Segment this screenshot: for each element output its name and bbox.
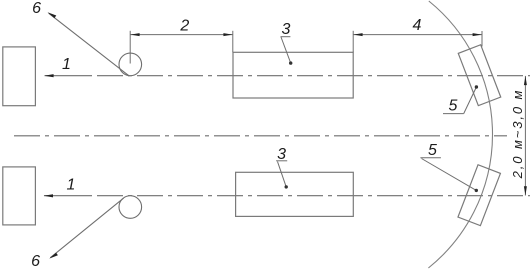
svg-text:1: 1 [62,56,71,73]
node: arrow 1 top [44,74,53,77]
component: lens circle bottom [119,196,142,219]
leader 5 top: underline [443,113,464,115]
leader 5 bottom: underline [420,157,441,159]
dimension 2: line [130,34,233,36]
leader 3 top: line [281,37,291,63]
component: arc (target surface) [428,1,492,268]
node: arrow 1 bottom [44,194,53,197]
svg-text:5: 5 [428,142,437,159]
component: module box 3 top [233,52,353,98]
component: module box 3 bottom [236,172,354,216]
svg-text:5: 5 [449,98,458,115]
wire: bottom beam axis (solid part after arrow) [44,195,92,197]
leader 6 top: line [49,13,129,76]
dimension vertical: arrowhead up [524,76,527,85]
dimension 2: extension line left (to circle centre) [129,31,131,64]
wire: top beam axis (solid part after arrow) [45,75,92,77]
component: tilted reflector 5 bottom [458,165,500,226]
leader 6 bottom: line [50,198,123,258]
dimension 4: line [353,34,482,36]
dimension vertical: line [524,76,526,196]
component: receiver box top-left [3,47,36,106]
svg-text:1: 1 [67,176,76,193]
leader 5 top: line [464,87,477,114]
svg-text:2,0 м~3,0 м: 2,0 м~3,0 м [510,89,525,180]
wire: bottom beam axis dash-dot [97,195,530,197]
node: dot 5 top [475,85,478,88]
leader 6 bottom: arrowhead [49,253,58,259]
leader 5 bottom: line [422,159,477,191]
dimension 2: arrowhead left [130,33,139,36]
wire: top beam axis dash-dot [97,75,530,77]
node: dot 5 bottom [475,189,478,192]
component: lens circle top [119,53,142,76]
dimension 4: arrowhead right [473,33,482,36]
leader 6 top: arrowhead [48,12,57,18]
svg-text:6: 6 [31,253,40,270]
dimension 2: arrowhead right [223,33,232,36]
dimension vertical: arrowhead down [524,186,527,195]
svg-text:3: 3 [282,21,291,38]
leader 3 bottom: line [278,162,287,187]
dimension 4: extension line left (box edge up) [352,31,354,53]
svg-text:4: 4 [413,17,422,34]
component: tilted reflector 5 top [458,45,500,106]
dimension 4: extension line right (to reflector corner) [481,31,483,47]
svg-text:2: 2 [179,18,189,35]
leader 3 bottom: underline [276,160,287,162]
dimension 2: extension line right (box edge up) [232,31,234,53]
dimension 4: arrowhead left [353,33,362,36]
component: receiver box bottom-left [3,167,36,225]
wire: middle horizontal dash-dot axis [14,135,507,137]
svg-text:6: 6 [32,0,41,17]
node: dot 3 bottom [285,185,288,188]
leader 3 top: underline [281,36,291,38]
node: dot 3 top [289,61,292,64]
